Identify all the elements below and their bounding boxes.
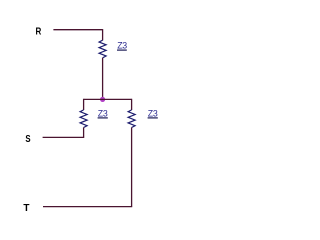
wire middle horizontal bus	[84, 98, 132, 100]
svg-text:Z3: Z3	[148, 108, 158, 118]
wire right branch down to resistor	[131, 99, 133, 110]
wire T horizontal	[43, 206, 132, 208]
underline of Z3 (top)	[117, 49, 127, 51]
underline of Z3 (left)	[98, 117, 108, 119]
resistor Z3 left	[80, 110, 87, 128]
junction dot	[100, 97, 105, 102]
wire R horizontal	[53, 29, 102, 31]
svg-text:Z3: Z3	[98, 108, 108, 118]
wire left branch down to resistor	[83, 99, 85, 110]
resistor Z3 top	[99, 40, 106, 58]
underline of Z3 (right)	[148, 117, 158, 119]
wire R corner vertical down to resistor	[102, 29, 104, 40]
wire S horizontal	[43, 136, 85, 138]
svg-text:R: R	[36, 27, 42, 38]
wire from top resistor to junction	[102, 58, 104, 100]
wire left branch below resistor	[83, 128, 85, 138]
wire right branch long vertical to T level	[131, 128, 133, 207]
svg-text:T: T	[23, 203, 30, 214]
svg-text:Z3: Z3	[117, 41, 127, 51]
resistor Z3 right	[128, 110, 135, 128]
svg-text:S: S	[25, 134, 30, 145]
